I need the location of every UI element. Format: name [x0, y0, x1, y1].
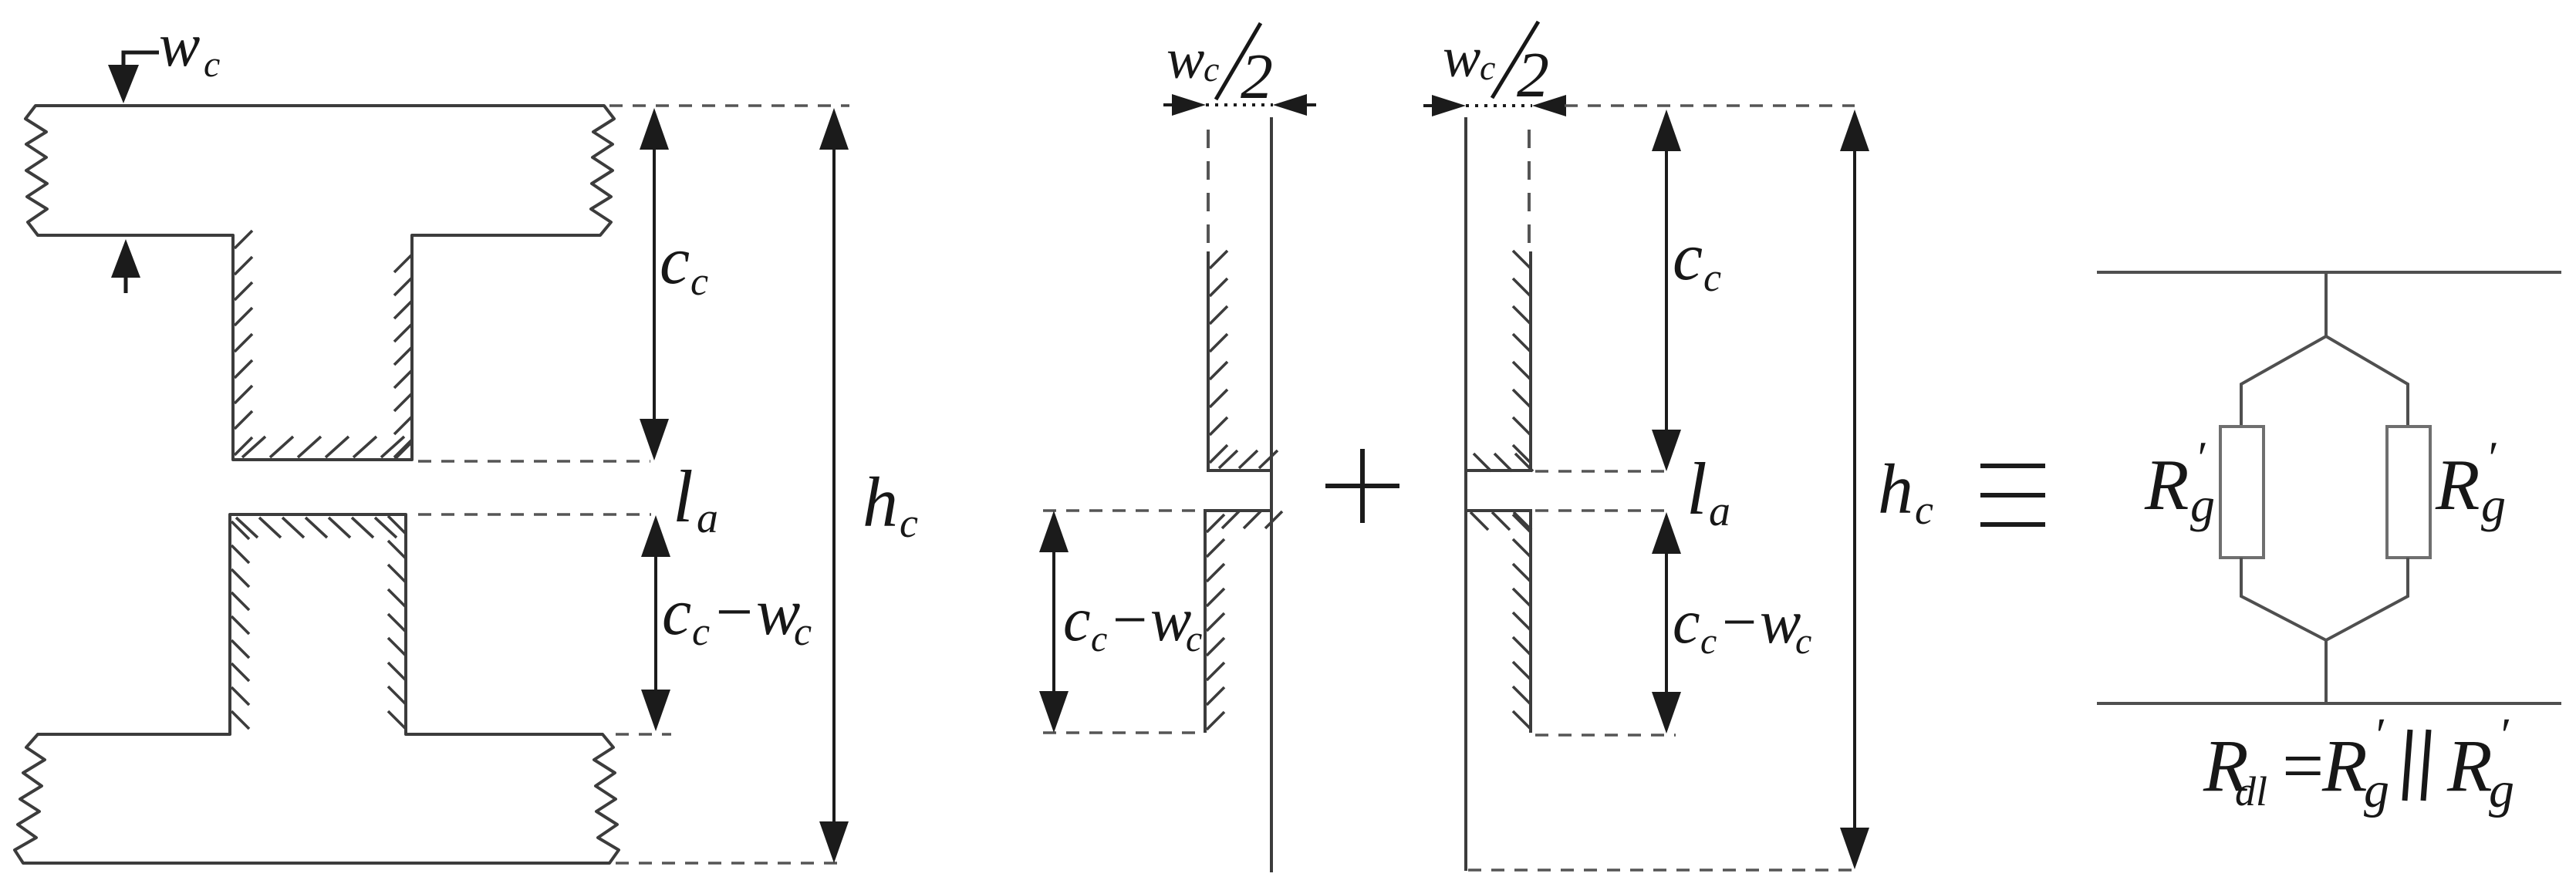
svg-text:w: w — [1166, 28, 1204, 91]
svg-text:c: c — [1186, 619, 1202, 659]
half-section B c_c dimension — [1535, 470, 1666, 473]
reference dashes upper pole face — [418, 460, 650, 463]
svg-text:R: R — [2446, 724, 2493, 807]
svg-text:c: c — [794, 610, 812, 654]
label l_a (B) — [1535, 509, 1666, 512]
reference dashes bottom bar top edge — [616, 733, 671, 736]
half-section B upper strip — [1466, 251, 1531, 470]
svg-text:′: ′ — [2498, 710, 2510, 762]
plus sign — [1325, 449, 1399, 523]
svg-text:dl: dl — [2235, 768, 2267, 814]
resistor R'g right — [2387, 427, 2430, 558]
svg-text:g: g — [2481, 477, 2506, 532]
half-section B cut line — [1464, 117, 1467, 871]
reference dashes lower pole face — [418, 513, 651, 516]
half-section A dashed edge — [1207, 130, 1210, 251]
svg-text:l: l — [673, 455, 694, 538]
svg-text:R: R — [2435, 445, 2480, 525]
svg-text:c: c — [662, 575, 691, 649]
svg-text:w: w — [1443, 26, 1480, 89]
core lower half (bottom yoke and centre post) — [15, 514, 619, 863]
half-section B lower strip — [1465, 511, 1531, 733]
dimension arrow c_c-w_c — [654, 521, 657, 725]
svg-text:h: h — [863, 463, 898, 541]
node top rail — [2097, 271, 2561, 274]
half-section B w_c/2 dimension — [1466, 104, 1532, 107]
svg-text:2: 2 — [1517, 39, 1549, 111]
svg-text:g: g — [2364, 762, 2389, 818]
svg-text:c: c — [1703, 256, 1721, 300]
svg-text:c: c — [1063, 586, 1091, 654]
wire left branch top — [2241, 336, 2326, 427]
reference dashes bottom bar bottom edge — [616, 862, 846, 865]
equivalence symbol — [1980, 466, 2045, 524]
svg-text:′: ′ — [2486, 433, 2497, 484]
half-section B bottom reference dashes — [1468, 868, 1855, 872]
svg-text:c: c — [1700, 621, 1717, 662]
half-section A w_c/2 dimension — [1206, 103, 1273, 106]
resistor R'g left — [2220, 427, 2264, 558]
svg-text:c: c — [1204, 49, 1219, 89]
svg-text:−w: −w — [1109, 586, 1191, 654]
svg-text:c: c — [1091, 619, 1107, 659]
half-section B dashed edge — [1528, 130, 1531, 251]
half-section A upper strip — [1208, 251, 1271, 470]
svg-text:c: c — [692, 610, 710, 654]
half-section B c_c-w_c dimension — [1665, 518, 1668, 727]
svg-text:l: l — [1686, 447, 1707, 530]
wire bottom stub — [2324, 640, 2328, 703]
svg-text:c: c — [660, 224, 690, 298]
wire left branch bottom — [2241, 558, 2326, 640]
svg-text:−w: −w — [711, 575, 800, 649]
wire top stub — [2324, 272, 2328, 336]
svg-text:c: c — [900, 500, 918, 546]
svg-text:R: R — [2144, 445, 2189, 525]
dimension w_c lower arrow — [111, 239, 140, 278]
svg-text:a: a — [697, 494, 718, 542]
svg-text:g: g — [2489, 762, 2514, 818]
node bottom rail — [2097, 702, 2561, 705]
half-section B top reference dashes — [1565, 104, 1855, 107]
svg-text:′: ′ — [2373, 710, 2385, 762]
dimension w_c leader arrow — [123, 52, 159, 68]
svg-text:R: R — [2321, 724, 2368, 807]
core upper half (top yoke and centre post) — [25, 106, 614, 460]
half-section A c_c-w_c dimension — [1043, 509, 1202, 512]
svg-text:c: c — [690, 260, 708, 304]
svg-text:c: c — [1480, 48, 1495, 87]
svg-text:2: 2 — [1241, 41, 1273, 113]
svg-text:h: h — [1878, 450, 1913, 528]
svg-text:c: c — [1673, 589, 1700, 656]
dimension arrow h_c — [832, 114, 836, 857]
dimension arrow c_c — [653, 114, 656, 455]
wire right branch bottom — [2326, 558, 2408, 640]
h_c dimension (B) — [1853, 116, 1856, 864]
hatching: upper post pole faces — [235, 231, 412, 460]
svg-text:−w: −w — [1718, 589, 1801, 656]
wire right branch top — [2326, 336, 2408, 427]
svg-text:w: w — [159, 12, 200, 79]
svg-text:=: = — [2277, 724, 2328, 807]
svg-text:c: c — [1915, 487, 1933, 533]
svg-text:c: c — [204, 44, 220, 85]
svg-text:g: g — [2190, 477, 2215, 532]
hatching: lower post pole faces — [231, 516, 406, 729]
half-section A lower strip — [1205, 511, 1271, 733]
reference dashes top bar top edge — [609, 104, 849, 107]
svg-text:′: ′ — [2195, 433, 2206, 484]
svg-text:a: a — [1709, 487, 1730, 535]
svg-text:c: c — [1673, 220, 1703, 295]
svg-text:c: c — [1795, 621, 1811, 662]
half-section A cut line — [1270, 117, 1273, 872]
